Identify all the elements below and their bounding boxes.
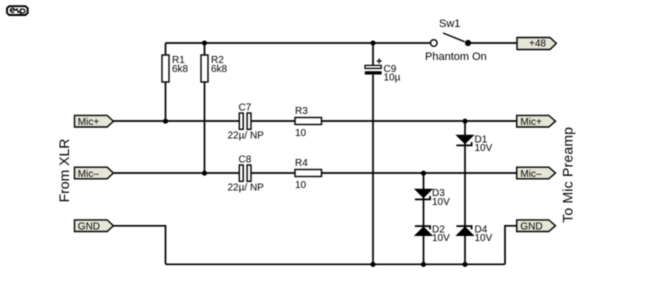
zener diode D4	[456, 224, 492, 244]
junction Mic+ R1	[163, 119, 168, 124]
svg-text:22µ/ NP: 22µ/ NP	[228, 130, 265, 141]
node +48 tag	[517, 38, 556, 50]
svg-text:Phantom On: Phantom On	[425, 51, 487, 63]
svg-text:Mic–: Mic–	[520, 169, 542, 180]
zener diode D3	[415, 188, 450, 208]
svg-text:10V: 10V	[475, 233, 493, 244]
wire Mic- row	[113, 172, 516, 174]
svg-text:Mic–: Mic–	[78, 169, 100, 180]
junction bottom C9	[370, 262, 375, 267]
svg-text:R4: R4	[295, 158, 308, 169]
wire switch to +48 tag	[471, 42, 517, 44]
resistor R4	[295, 158, 322, 191]
wire D3 D2 column	[423, 173, 425, 264]
svg-text:GND: GND	[520, 222, 542, 233]
svg-text:10: 10	[295, 128, 307, 139]
svg-text:From XLR: From XLR	[56, 139, 72, 203]
svg-text:Mic+: Mic+	[78, 117, 100, 128]
svg-text:10V: 10V	[432, 233, 450, 244]
node GND input tag	[75, 220, 114, 233]
ESP logo	[7, 6, 28, 15]
svg-text:10V: 10V	[475, 143, 493, 154]
svg-text:6k8: 6k8	[172, 64, 189, 75]
svg-text:10µ: 10µ	[384, 73, 401, 84]
wire C9 column	[372, 43, 374, 264]
junction Mic+ D1	[462, 119, 467, 124]
wire top rail	[166, 42, 431, 44]
zener diode D1	[456, 134, 492, 154]
capacitor C9	[365, 59, 401, 84]
svg-text:To Mic Preamp: To Mic Preamp	[559, 127, 575, 223]
svg-text:C8: C8	[239, 155, 252, 166]
junction top rail R2	[202, 40, 207, 45]
junction bottom D4	[462, 262, 467, 267]
wire R2 column	[204, 43, 206, 173]
svg-text:+48: +48	[529, 38, 546, 49]
capacitor C8	[228, 155, 265, 194]
svg-text:10: 10	[295, 180, 307, 191]
zener diode D2	[415, 224, 450, 244]
capacitor C7	[228, 103, 265, 142]
svg-text:GND: GND	[78, 222, 100, 233]
svg-text:10V: 10V	[432, 197, 450, 208]
svg-text:Mic+: Mic+	[520, 117, 542, 128]
junction Mic- R2	[202, 171, 207, 176]
resistor R3	[295, 106, 322, 139]
svg-text:22µ/ NP: 22µ/ NP	[228, 182, 265, 193]
svg-text:C7: C7	[239, 103, 252, 114]
junction Mic- D3	[421, 171, 426, 176]
svg-text:Sw1: Sw1	[439, 18, 460, 30]
node Mic- input tag	[75, 167, 114, 180]
wire R1 column	[165, 43, 167, 121]
wire GND left	[113, 226, 165, 264]
junction top rail C9	[370, 40, 375, 45]
junction bottom D2	[421, 262, 426, 267]
node Mic- output tag	[517, 167, 556, 180]
resistor R1	[162, 55, 189, 82]
node GND output tag	[517, 220, 556, 233]
wire GND right riser	[505, 226, 517, 264]
wire bottom rail	[166, 263, 506, 265]
node Mic+ output tag	[517, 115, 556, 128]
resistor R2	[201, 55, 228, 82]
node Mic+ input tag	[75, 115, 114, 128]
wire D1 D4 column	[464, 121, 466, 264]
svg-text:6k8: 6k8	[211, 64, 228, 75]
switch Sw1	[425, 18, 487, 63]
wire Mic+ row	[113, 120, 516, 122]
svg-text:R3: R3	[295, 106, 308, 117]
